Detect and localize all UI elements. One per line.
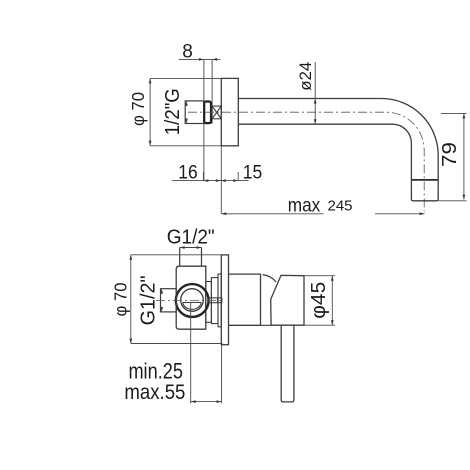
phi45 dimension xyxy=(304,276,335,326)
phi70 top extension lines xyxy=(150,78,221,145)
phi70 bottom dimension xyxy=(130,255,132,344)
spout rosette plate xyxy=(221,78,238,145)
svg-text:min.25: min.25 xyxy=(128,358,183,383)
cartridge circle inner xyxy=(181,289,204,312)
wall face extension line xyxy=(220,146,222,214)
svg-text:φ 70: φ 70 xyxy=(110,282,130,316)
mixer rosette plate xyxy=(221,255,228,345)
dimension 8 line xyxy=(179,58,221,60)
svg-text:G1/2": G1/2" xyxy=(136,275,159,325)
svg-text:φ45: φ45 xyxy=(307,282,330,319)
mixer left inlet stub xyxy=(161,289,177,312)
aerator band xyxy=(411,179,438,181)
dimension 8 arrows xyxy=(199,58,217,61)
handle lever rod xyxy=(281,325,294,402)
mixer collar xyxy=(218,274,221,327)
spout tube outline xyxy=(238,99,438,180)
cartridge circle outer xyxy=(176,284,209,317)
phi70 top dimension line xyxy=(149,78,151,145)
phi24 dimension xyxy=(314,62,316,123)
spout tip xyxy=(411,180,438,201)
svg-text:max: max xyxy=(288,194,321,216)
min max extension lines xyxy=(221,345,223,404)
dimension 8 extension lines xyxy=(204,59,212,180)
dimension 79 xyxy=(463,113,465,199)
G1/2 left dimension arrows xyxy=(160,289,163,312)
spout center line xyxy=(188,112,424,211)
handle body xyxy=(271,275,304,325)
cartridge stem xyxy=(209,298,222,303)
spout union nut (thick) xyxy=(204,102,211,124)
wall fitting x-box xyxy=(212,106,221,119)
mixer vertical center line xyxy=(190,303,192,404)
svg-text:φ 70: φ 70 xyxy=(128,92,148,126)
G1/2 top dimension xyxy=(180,247,202,249)
mixer in-wall flange xyxy=(211,278,218,324)
mixer horizontal center line xyxy=(156,299,221,301)
svg-text:G1/2": G1/2" xyxy=(167,226,215,248)
svg-text:max.55: max.55 xyxy=(124,381,185,404)
svg-text:ø24: ø24 xyxy=(297,62,315,91)
mixer body neck xyxy=(206,282,212,323)
cartridge cup xyxy=(183,303,202,310)
svg-text:245: 245 xyxy=(327,198,352,215)
handle joint curve xyxy=(261,275,277,326)
dimension 79 extension lines xyxy=(438,113,466,200)
mixer cone escutcheon xyxy=(229,274,261,325)
spout inlet stub xyxy=(185,101,204,124)
svg-text:79: 79 xyxy=(438,142,461,167)
mixer top inlet stub xyxy=(180,248,202,267)
mixer body xyxy=(176,266,206,329)
svg-text:1/2"G: 1/2"G xyxy=(161,88,184,135)
half inch G dimension arrows xyxy=(185,101,188,124)
